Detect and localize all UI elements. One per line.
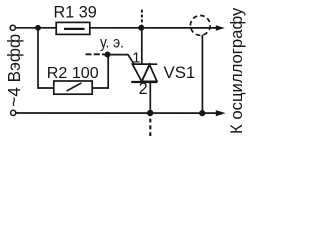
wire dashed continuation top (141, 10, 143, 25)
resistor R2 (54, 81, 92, 94)
svg-text:R2 100: R2 100 (47, 64, 99, 82)
triac VS1 (131, 64, 157, 82)
terminal circle bottom left (11, 110, 16, 115)
wire top horizontal (15, 27, 216, 29)
wire dashed continuation bottom (149, 119, 151, 137)
resistor R1 power bar (64, 28, 85, 30)
wire bottom horizontal (16, 112, 216, 114)
junction dot bottom cathode (147, 110, 153, 116)
svg-text:у. э.: у. э. (100, 34, 124, 51)
junction dot gate (105, 52, 111, 58)
gate label у.э. leader dashes (86, 53, 105, 55)
junction dot anode (138, 25, 144, 31)
wire right vertical (201, 35, 203, 113)
junction dot bottom right (199, 110, 205, 116)
arrow top right (216, 25, 225, 31)
svg-text:~4 Вэфф: ~4 Вэфф (4, 34, 24, 107)
svg-text:R1 39: R1 39 (54, 4, 97, 22)
svg-text:1: 1 (132, 49, 140, 66)
wire cathode vertical VS1 (149, 82, 151, 113)
wire left vertical to R2 (38, 28, 54, 88)
resistor R1 (56, 22, 90, 34)
wire R2 right to gate riser (92, 55, 108, 88)
junction dot top left (35, 25, 41, 31)
svg-text:VS1: VS1 (164, 63, 196, 82)
svg-text:2: 2 (139, 80, 148, 98)
arrow bottom right (216, 110, 226, 116)
resistor R2 power stroke (67, 83, 82, 91)
wire anode vertical VS1 (141, 28, 143, 64)
oscilloscope dashed circle (190, 16, 210, 36)
terminal circle top left (10, 25, 15, 30)
svg-text:К осциллографу: К осциллографу (227, 7, 246, 134)
wire gate horizontal and diagonal to triac (104, 55, 134, 65)
